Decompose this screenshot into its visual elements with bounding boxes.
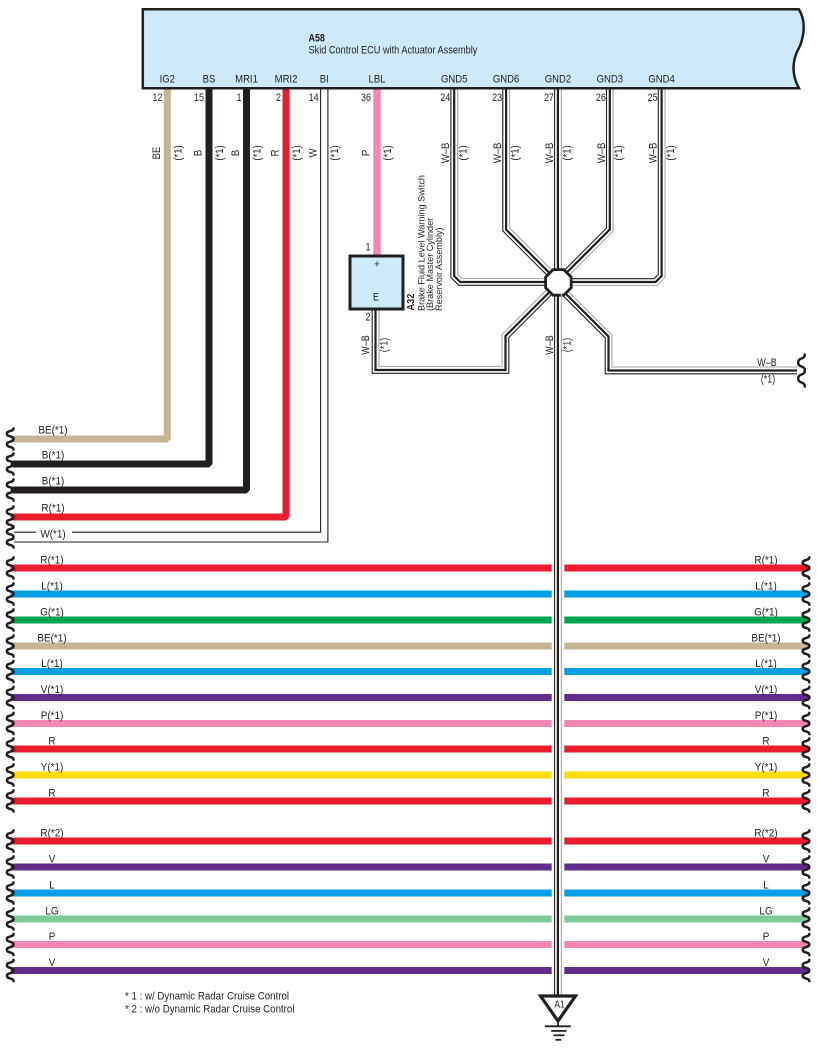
svg-text:R: R: [48, 788, 55, 799]
svg-text:B(*1): B(*1): [42, 450, 65, 461]
svg-text:(*1): (*1): [761, 374, 775, 386]
wire P(*1) horizontal: [14, 720, 805, 727]
wire R(*1) horizontal: [14, 565, 805, 572]
svg-text:36: 36: [361, 92, 371, 104]
svg-text:B: B: [230, 150, 242, 156]
svg-text:(*1): (*1): [291, 145, 303, 160]
svg-text:(*1): (*1): [510, 145, 522, 160]
svg-text:A32: A32: [405, 294, 417, 311]
wire GND3 pin26 W-B to junction: [562, 87, 614, 278]
svg-text:B(*1): B(*1): [42, 476, 65, 487]
svg-text:L: L: [763, 880, 769, 891]
svg-text:BS: BS: [203, 74, 216, 86]
svg-text:12: 12: [152, 92, 162, 104]
svg-text:Y(*1): Y(*1): [755, 762, 778, 773]
continuation brace right R: [803, 738, 810, 759]
wire V horizontal: [14, 864, 805, 871]
wire R horizontal: [14, 746, 805, 753]
wire GND5 pin24 W-B to junction: [451, 87, 552, 285]
svg-text:(*1): (*1): [379, 338, 391, 352]
continuation brace left W(*1): [7, 526, 14, 547]
continuation brace left R(*1): [7, 557, 14, 578]
svg-text:V: V: [49, 958, 56, 969]
wire A32 pin2 E W-B to junction: [372, 286, 555, 373]
svg-text:E: E: [373, 292, 379, 304]
continuation brace right L(*1): [803, 583, 810, 604]
wire BE(*1) horizontal: [14, 643, 805, 650]
svg-text:(*1): (*1): [665, 145, 677, 160]
continuation brace left V(*1): [7, 687, 14, 708]
svg-text:2: 2: [276, 92, 281, 104]
svg-text:L(*1): L(*1): [41, 659, 63, 670]
svg-text:BE: BE: [151, 147, 163, 160]
svg-text:GND2: GND2: [545, 74, 572, 86]
svg-text:GND5: GND5: [441, 74, 468, 86]
continuation brace right R(*2): [803, 830, 810, 851]
svg-text:BE(*1): BE(*1): [38, 425, 67, 436]
wire L(*1) horizontal: [14, 668, 805, 675]
svg-text:(*1): (*1): [562, 338, 574, 352]
svg-text:B: B: [193, 150, 205, 156]
wire BI pin14 W: white wire outline, down then left to edge: [14, 87, 328, 542]
continuation brace left R: [7, 738, 14, 759]
svg-text:R(*2): R(*2): [40, 828, 63, 839]
continuation brace right BE(*1): [803, 635, 810, 656]
svg-text:LBL: LBL: [369, 74, 386, 86]
svg-text:25: 25: [648, 92, 658, 104]
svg-text:V: V: [763, 958, 770, 969]
wire MRI2 pin2 R: red, down then left to edge: [14, 87, 286, 517]
continuation brace left L: [7, 882, 14, 903]
continuation brace right L(*1): [803, 661, 810, 682]
wire P horizontal: [14, 941, 805, 948]
svg-text:(*1): (*1): [173, 145, 185, 160]
svg-text:W–B: W–B: [648, 143, 660, 164]
svg-text:+: +: [374, 259, 379, 271]
ground symbol A1: [541, 996, 576, 1021]
svg-text:* 2 : w/o Dynamic Radar Cruise: * 2 : w/o Dynamic Radar Cruise Control: [125, 1004, 294, 1016]
wire LG horizontal: [14, 916, 805, 923]
continuation brace left P: [7, 934, 14, 955]
svg-text:(*1): (*1): [562, 145, 574, 160]
svg-text:(*1): (*1): [458, 145, 470, 160]
continuation brace left B(*1): [7, 453, 14, 474]
svg-text:V: V: [49, 854, 56, 865]
svg-text:P: P: [763, 932, 770, 943]
svg-text:P: P: [361, 150, 373, 156]
svg-text:IG2: IG2: [160, 74, 176, 86]
svg-text:GND4: GND4: [648, 74, 675, 86]
svg-text:L(*1): L(*1): [41, 581, 63, 592]
wire GND2 W-B long vertical to ground: [552, 556, 565, 980]
connector A58 Skid Control ECU box: [143, 9, 804, 88]
continuation brace left R: [7, 790, 14, 811]
wire G(*1) horizontal: [14, 617, 805, 624]
svg-text:GND3: GND3: [597, 74, 624, 86]
svg-text:24: 24: [440, 92, 450, 104]
svg-text:A1: A1: [554, 998, 564, 1010]
svg-text:LG: LG: [45, 906, 58, 917]
wire Y(*1) horizontal: [14, 772, 805, 779]
svg-text:W–B: W–B: [544, 143, 556, 164]
svg-text:P: P: [49, 932, 56, 943]
svg-text:BE(*1): BE(*1): [751, 633, 780, 644]
svg-text:P(*1): P(*1): [41, 711, 64, 722]
continuation brace left G(*1): [7, 609, 14, 630]
continuation brace left R(*2): [7, 830, 14, 851]
svg-text:G(*1): G(*1): [40, 607, 64, 618]
svg-text:V: V: [763, 854, 770, 865]
svg-text:R(*2): R(*2): [754, 828, 777, 839]
wire IG2 pin12 BE: tan, down then left to edge: [14, 87, 167, 439]
svg-text:L(*1): L(*1): [755, 659, 777, 670]
wire GND2 pin27 W-B upper segment: [555, 87, 562, 272]
ground earth bars: [557, 1021, 559, 1026]
wire LBL pin36 P: pink, down to A32 switch: [373, 87, 380, 258]
continuation brace right V(*1): [803, 687, 810, 708]
svg-text:W–B: W–B: [492, 143, 504, 164]
svg-text:(*1): (*1): [330, 145, 342, 160]
svg-text:BE(*1): BE(*1): [37, 633, 66, 644]
svg-text:(*1): (*1): [214, 145, 226, 160]
wire V(*1) horizontal: [14, 694, 805, 701]
wire R(*2) horizontal: [14, 838, 805, 845]
continuation brace right R(*1): [803, 557, 810, 578]
svg-text:26: 26: [596, 92, 606, 104]
svg-text:R(*1): R(*1): [754, 555, 777, 566]
svg-text:MRI1: MRI1: [235, 74, 258, 86]
svg-text:MRI2: MRI2: [275, 74, 298, 86]
wire GND4 pin25 W-B to junction: [564, 87, 665, 286]
wire L(*1) horizontal: [14, 591, 805, 598]
svg-text:R(*1): R(*1): [40, 555, 63, 566]
svg-text:R(*1): R(*1): [41, 503, 64, 514]
svg-text:W–B: W–B: [360, 335, 372, 355]
svg-text:L(*1): L(*1): [755, 581, 777, 592]
svg-text:LG: LG: [759, 906, 772, 917]
continuation brace left B(*1): [7, 479, 14, 500]
component A32 Brake Fluid Level Warning Switch box: [350, 256, 403, 309]
svg-text:R: R: [48, 736, 55, 747]
svg-text:* 1 : w/ Dynamic Radar Cruise: * 1 : w/ Dynamic Radar Cruise Control: [125, 991, 289, 1003]
wire R horizontal: [14, 798, 805, 805]
svg-text:G(*1): G(*1): [754, 607, 778, 618]
junction node: W-B splice octagon: [546, 270, 572, 296]
svg-text:(*1): (*1): [382, 145, 394, 160]
svg-text:Reservoir Assembly): Reservoir Assembly): [434, 227, 444, 311]
wire V horizontal: [14, 967, 805, 974]
svg-text:R: R: [762, 788, 769, 799]
continuation brace right G(*1): [803, 609, 810, 630]
svg-text:27: 27: [544, 92, 554, 104]
svg-text:P(*1): P(*1): [755, 711, 778, 722]
continuation brace right R: [803, 790, 810, 811]
svg-text:Y(*1): Y(*1): [41, 762, 64, 773]
continuation brace right P(*1): [803, 713, 810, 734]
svg-text:A58: A58: [309, 33, 326, 45]
svg-text:1: 1: [366, 242, 371, 254]
continuation brace left V: [7, 960, 14, 981]
svg-text:R: R: [762, 736, 769, 747]
svg-text:15: 15: [194, 92, 204, 104]
continuation brace left BE(*1): [7, 428, 14, 449]
continuation brace left BE(*1): [7, 635, 14, 656]
wire GND6 pin23 W-B to junction: [503, 87, 555, 278]
continuation brace right Y(*1): [803, 764, 810, 785]
svg-text:(*1): (*1): [252, 145, 264, 160]
svg-text:W–B: W–B: [596, 143, 608, 164]
svg-text:2: 2: [366, 312, 371, 324]
continuation brace left R(*1): [7, 506, 14, 527]
continuation brace left Y(*1): [7, 764, 14, 785]
svg-text:GND6: GND6: [493, 74, 520, 86]
svg-text:R: R: [270, 149, 282, 156]
svg-text:W(*1): W(*1): [40, 529, 65, 540]
svg-text:W–B: W–B: [757, 357, 777, 369]
continuation brace right L: [803, 882, 810, 903]
continuation brace left L(*1): [7, 661, 14, 682]
svg-text:23: 23: [492, 92, 502, 104]
svg-text:(*1): (*1): [614, 145, 626, 160]
svg-text:W: W: [308, 148, 320, 157]
svg-text:14: 14: [309, 92, 319, 104]
continuation brace right LG: [803, 908, 810, 929]
svg-text:W–B: W–B: [544, 335, 556, 355]
wire BS pin15 B: black, down then left to edge: [14, 87, 209, 464]
continuation brace left P(*1): [7, 713, 14, 734]
continuation brace left L(*1): [7, 583, 14, 604]
continuation brace W-B right edge: [798, 355, 805, 387]
svg-text:1: 1: [237, 92, 242, 104]
wire L horizontal: [14, 890, 805, 897]
svg-text:Skid Control ECU with Actuator: Skid Control ECU with Actuator Assembly: [309, 45, 479, 57]
continuation brace right V: [803, 856, 810, 877]
svg-text:W–B: W–B: [441, 143, 453, 164]
wire MRI1 pin1 B: black, down then left to edge: [14, 87, 247, 490]
wire W-B from junction to right edge: [560, 288, 797, 374]
continuation brace left LG: [7, 908, 14, 929]
svg-text:V(*1): V(*1): [755, 685, 778, 696]
svg-text:BI: BI: [320, 74, 329, 86]
continuation brace left V: [7, 856, 14, 877]
svg-text:L: L: [49, 880, 55, 891]
continuation brace right V: [803, 960, 810, 981]
wire label W(*1) left stub: [36, 529, 72, 540]
svg-text:V(*1): V(*1): [41, 685, 64, 696]
continuation brace right P: [803, 934, 810, 955]
